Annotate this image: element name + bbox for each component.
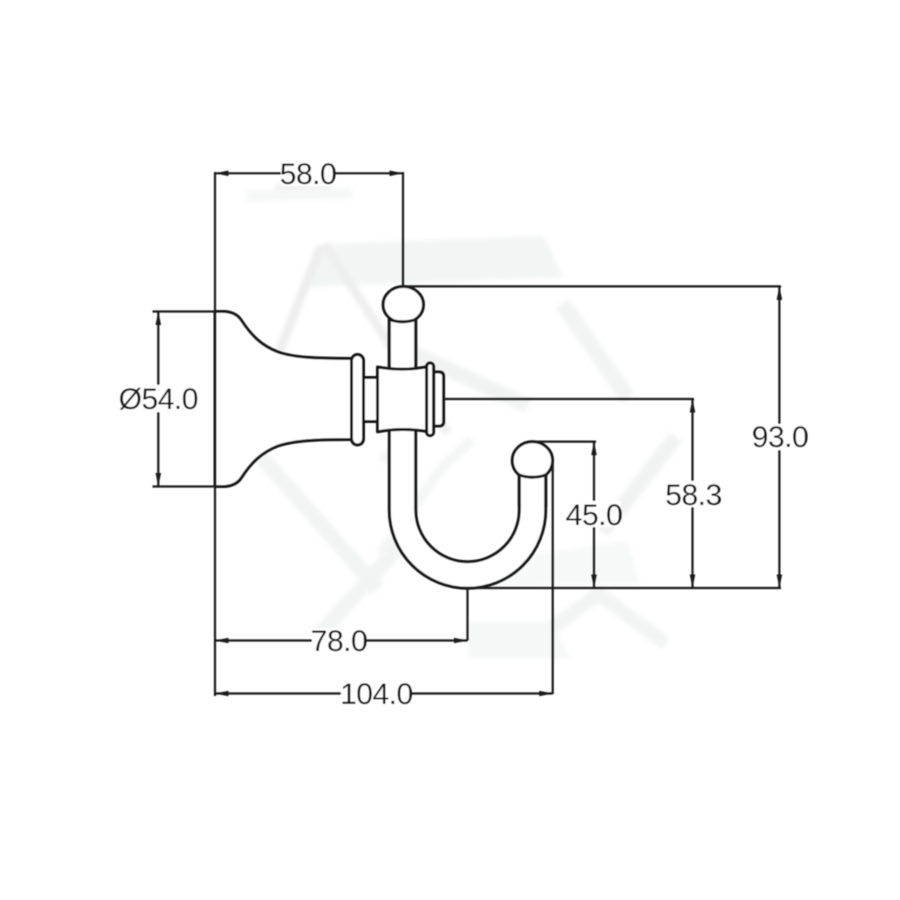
dim line 78.0: [215, 639, 468, 641]
watermark faint lower bands: [492, 541, 640, 586]
svg-text:Ø54.0: Ø54.0: [119, 383, 198, 416]
dim line 93.0: [778, 286, 780, 588]
dimension arrows: [156, 171, 783, 697]
finial ball shoulder patch: [389, 320, 415, 365]
watermark centre band: [398, 346, 528, 406]
watermark letter left leg: [248, 246, 321, 430]
collar ring right: [427, 363, 434, 436]
halo 58.3: [666, 481, 720, 507]
mounting block: [378, 367, 430, 432]
dimension texts: [118, 158, 808, 711]
watermark faint brand text: [275, 184, 331, 190]
dim line 45.0: [593, 442, 595, 588]
halo D54.0: [118, 385, 198, 412]
watermark top-left faint band: [247, 193, 352, 196]
dim line D54: [157, 312, 159, 487]
watermark lower-left band: [260, 455, 378, 589]
tick at tip ball top (45.0): [532, 441, 596, 443]
svg-text:58.3: 58.3: [665, 479, 721, 512]
watermark right band: [602, 437, 676, 532]
svg-text:58.0: 58.0: [280, 158, 336, 191]
hook bottom extension to 78.0: [466, 588, 468, 641]
hook arm and post (J-hook tube): [389, 318, 545, 588]
post centre extension line (58.0 right): [402, 172, 404, 286]
hook tip ball: [512, 442, 552, 480]
halo 45.0: [567, 501, 621, 527]
dim line 58.0: [215, 172, 403, 174]
end cap: [434, 372, 444, 426]
watermark bottom chevron: [529, 594, 666, 644]
watermark lower band: [317, 538, 407, 637]
wall reference extension line: [214, 172, 216, 696]
svg-text:104.0: 104.0: [340, 678, 413, 711]
halo 78.0: [312, 628, 366, 654]
svg-text:78.0: 78.0: [311, 625, 367, 658]
halo 93.0: [753, 424, 807, 450]
watermark top-right edge band: [562, 303, 628, 398]
halo 58.0: [281, 160, 335, 186]
axis tick (58.3): [444, 398, 694, 400]
connector cylinder: [364, 378, 378, 422]
hook tip ball shoulder patch: [519, 475, 545, 505]
dimension lines: [153, 172, 782, 696]
robe hook part drawing: [118, 158, 808, 711]
finial ball top: [383, 287, 423, 323]
svg-text:45.0: 45.0: [566, 499, 622, 532]
watermark small chevrons: [380, 440, 472, 554]
watermark letter right leg: [324, 244, 448, 433]
collar ring left: [352, 355, 364, 446]
dim line 58.3: [691, 399, 693, 588]
dim line 104.0: [215, 692, 553, 694]
svg-text:93.0: 93.0: [752, 421, 808, 454]
wall flange bell: [215, 312, 352, 487]
ball right extension to 104.0: [552, 461, 554, 695]
top tick at ball (93.0): [403, 285, 781, 287]
halo 104.0: [341, 681, 412, 707]
hook bottom tick line: [466, 587, 781, 589]
dim line D54 ticks: [153, 310, 223, 312]
watermark top band: [303, 236, 563, 287]
